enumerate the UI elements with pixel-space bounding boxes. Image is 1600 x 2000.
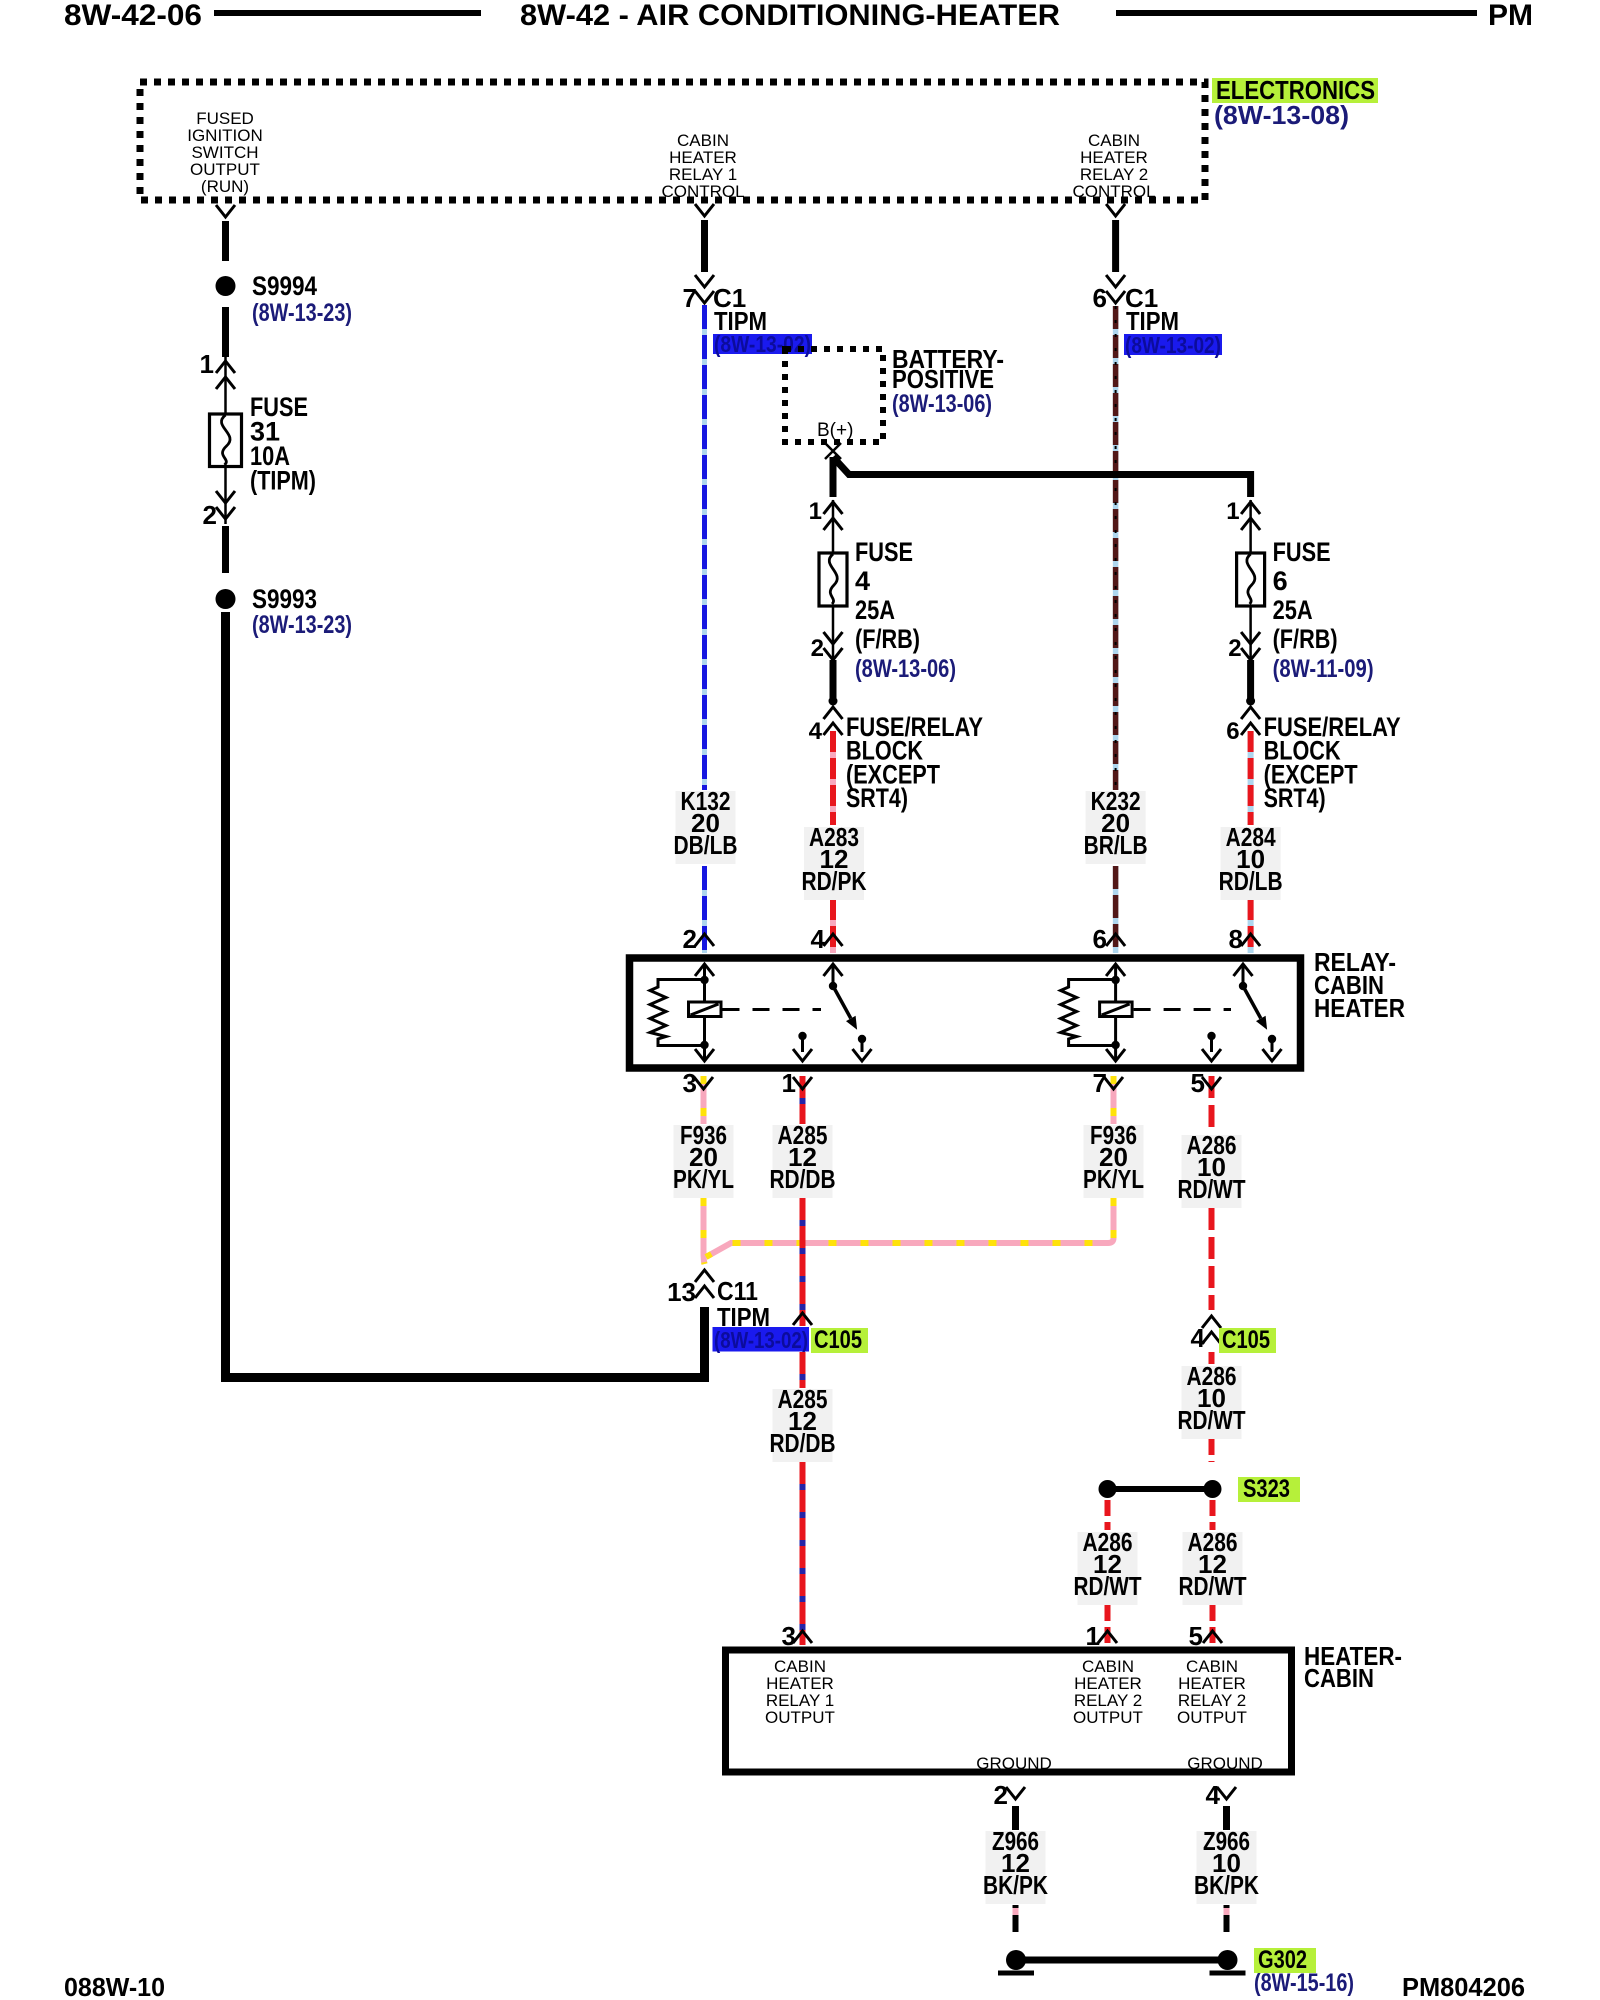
svg-text:RD/PK: RD/PK: [802, 866, 867, 896]
label A285 upper: [770, 1120, 836, 1198]
svg-text:(8W-13-23): (8W-13-23): [252, 299, 352, 327]
svg-text:S323: S323: [1243, 1475, 1290, 1503]
label G302: [1254, 1946, 1316, 1974]
label cabin heater relay 2 control: [1072, 131, 1155, 201]
splice S9993: [216, 589, 236, 609]
svg-text:BK/PK: BK/PK: [983, 1870, 1048, 1900]
footer right PM804206: [1402, 1972, 1525, 2000]
svg-text:(F/RB): (F/RB): [855, 624, 920, 654]
wire A286 10 RD/WT upper: [1209, 1076, 1215, 1133]
svg-text:B(+): B(+): [817, 420, 853, 441]
svg-text:2: 2: [203, 500, 217, 530]
svg-text:25A: 25A: [1273, 595, 1313, 625]
heater box pins bottom: [994, 1780, 1025, 1810]
svg-text:RD/WT: RD/WT: [1178, 1174, 1246, 1204]
header rule right: [1116, 10, 1477, 16]
label cabin heater relay 1 control: [661, 131, 744, 201]
long wire S9993 to C11 pin 13: [226, 612, 705, 1378]
label fused ignition switch output: [187, 109, 263, 196]
svg-text:RD/DB: RD/DB: [770, 1164, 836, 1194]
svg-text:2: 2: [811, 635, 824, 662]
svg-text:6: 6: [1273, 566, 1288, 596]
svg-text:(8W-13-02): (8W-13-02): [714, 1327, 808, 1353]
label A283: [802, 822, 867, 900]
fuse F31: [210, 357, 242, 524]
relay 1 internals: [650, 964, 872, 1061]
wire A286 S323 right leg: [1210, 1500, 1216, 1530]
fuse 6 value label: [1273, 537, 1374, 683]
svg-text:4: 4: [855, 566, 870, 596]
svg-text:(8W-13-06): (8W-13-06): [855, 655, 956, 683]
splice S323: [1099, 1480, 1222, 1498]
pin 1 fuse 31: [200, 349, 235, 389]
svg-text:2: 2: [683, 924, 697, 954]
relay box pins bottom: [683, 1068, 713, 1098]
label ELECTRONICS: [1212, 75, 1378, 105]
svg-text:(8W-13-23): (8W-13-23): [252, 611, 352, 639]
wire K132 20 DB/LB: [702, 305, 707, 953]
svg-text:RD/LB: RD/LB: [1219, 866, 1283, 896]
svg-text:2: 2: [1228, 635, 1241, 662]
svg-text:S9993: S9993: [252, 584, 317, 614]
header right PM: [1488, 0, 1533, 32]
label K132: [674, 786, 738, 864]
svg-text:25A: 25A: [855, 595, 895, 625]
svg-text:PK/YL: PK/YL: [1083, 1164, 1144, 1194]
ref 8W-13-08: [1214, 100, 1349, 130]
footer left 088W-10: [64, 1972, 165, 2000]
svg-text:(TIPM): (TIPM): [250, 466, 316, 496]
wire F936 pin3 PK/YL: [701, 1076, 707, 1124]
svg-text:(8W-13-02): (8W-13-02): [714, 331, 811, 357]
label K232: [1084, 786, 1148, 864]
svg-text:8: 8: [1229, 924, 1243, 954]
connector C105 left: [793, 1313, 868, 1354]
svg-text:FUSE: FUSE: [1273, 537, 1331, 567]
svg-text:(F/RB): (F/RB): [1273, 624, 1338, 654]
wire A286 below C105: [1209, 1352, 1215, 1364]
wire A286 to C105: [1209, 1208, 1215, 1310]
svg-text:7: 7: [1093, 1068, 1107, 1098]
wire fuse 6 to fuse/relay block: [1246, 660, 1255, 706]
label F936 left: [673, 1120, 734, 1198]
label S9994: [252, 271, 352, 327]
connector C1 right link box: [1124, 332, 1222, 358]
fuse F4: [819, 500, 847, 660]
connector C1 pin 6 labels: [1093, 283, 1179, 336]
label S323: [1238, 1475, 1300, 1503]
label S9993: [252, 584, 352, 639]
svg-text:BR/LB: BR/LB: [1084, 830, 1148, 860]
svg-text:8W-42 - AIR CONDITIONING-HEATE: 8W-42 - AIR CONDITIONING-HEATER: [520, 0, 1060, 32]
splice S9994: [216, 276, 236, 296]
svg-text:2: 2: [994, 1780, 1008, 1810]
svg-text:SRT4): SRT4): [846, 783, 908, 813]
label cabin heater relay 2 output a: [1073, 1657, 1143, 1727]
ref 8W-15-16: [1254, 1969, 1354, 1997]
pin 2 fuse 6: [1228, 632, 1260, 662]
svg-text:088W-10: 088W-10: [64, 1972, 165, 2000]
wire A286 right leg to heater: [1210, 1605, 1216, 1645]
svg-text:SRT4): SRT4): [1264, 783, 1326, 813]
label Z966 left: [983, 1826, 1048, 1904]
wire cabin heater relay control to C1 pin 6: [1106, 204, 1125, 303]
svg-text:C105: C105: [1222, 1326, 1270, 1354]
svg-text:13: 13: [667, 1277, 696, 1307]
connector C1 left link box: [713, 331, 812, 357]
wire A284 10 RD/LB: [1248, 731, 1254, 953]
label RELAY-CABIN HEATER: [1314, 947, 1405, 1023]
label A286 upper: [1178, 1130, 1246, 1208]
wire A285 12 RD/DB upper: [800, 1076, 806, 1124]
svg-text:DB/LB: DB/LB: [674, 830, 738, 860]
svg-text:CABIN: CABIN: [1304, 1663, 1374, 1693]
pin 1 fuse 4: [809, 498, 843, 530]
svg-text:OUTPUT: OUTPUT: [1177, 1708, 1247, 1727]
pin 13 C11 connector: [667, 1270, 770, 1332]
svg-text:4: 4: [1191, 1323, 1206, 1353]
wire F936 pin7 PK/YL: [1111, 1076, 1117, 1124]
svg-text:BK/PK: BK/PK: [1194, 1870, 1259, 1900]
label cabin heater relay 2 output b: [1177, 1657, 1247, 1727]
wire Z966 right top: [1223, 1806, 1230, 1830]
relay 2 internals: [1061, 964, 1282, 1061]
wire cabin heater relay control to C1 pin 7: [695, 204, 714, 303]
pin 1 fuse 6: [1226, 498, 1260, 530]
svg-text:OUTPUT: OUTPUT: [765, 1708, 835, 1727]
svg-text:FUSE: FUSE: [855, 537, 913, 567]
relay cabin heater box: [630, 958, 1301, 1068]
wire fuse31 to S9993: [222, 526, 229, 573]
pin 2 fuse 4: [811, 632, 843, 662]
wire from ignition output: [216, 205, 235, 261]
wire Z966 left top: [1012, 1806, 1019, 1830]
wire S9994 to fuse 31: [222, 307, 229, 357]
wire A286 left leg to heater: [1105, 1605, 1111, 1645]
svg-text:(8W-11-09): (8W-11-09): [1273, 655, 1374, 683]
label A286 mid: [1178, 1361, 1246, 1439]
label ground b: [1187, 1754, 1263, 1773]
svg-text:1: 1: [782, 1068, 796, 1098]
svg-text:8W-42-06: 8W-42-06: [64, 0, 202, 32]
svg-text:1: 1: [1226, 498, 1239, 525]
svg-text:RD/DB: RD/DB: [770, 1428, 836, 1458]
label A286 right leg: [1179, 1527, 1247, 1605]
wire A286 to S323: [1209, 1439, 1215, 1462]
label cabin heater relay 1 output: [765, 1657, 835, 1727]
svg-text:S9994: S9994: [252, 271, 317, 301]
svg-text:7: 7: [683, 283, 697, 313]
svg-text:RD/WT: RD/WT: [1179, 1571, 1247, 1601]
fuse F6: [1237, 500, 1265, 660]
svg-text:OUTPUT: OUTPUT: [1073, 1708, 1143, 1727]
connector C11 link box: [713, 1327, 810, 1353]
heater-cabin box: [726, 1650, 1292, 1772]
label Z966 right: [1194, 1826, 1259, 1904]
label FUSE/RELAY BLOCK: [1264, 712, 1401, 813]
svg-text:HEATER: HEATER: [1314, 993, 1405, 1023]
connector C105 right: [1191, 1316, 1276, 1354]
label BATTERY-POSITIVE: [892, 344, 1004, 418]
svg-text:1: 1: [809, 498, 822, 525]
label A285 lower: [770, 1384, 836, 1462]
fuse 4 value label: [855, 537, 956, 683]
battery-positive dotted box: [785, 349, 883, 442]
svg-text:1: 1: [200, 349, 214, 379]
svg-text:GROUND: GROUND: [976, 1754, 1052, 1773]
svg-text:RD/WT: RD/WT: [1178, 1405, 1246, 1435]
ground G302: [998, 1950, 1246, 1973]
svg-text:CONTROL: CONTROL: [661, 182, 744, 201]
wire A285 below C105: [800, 1352, 806, 1388]
svg-text:4: 4: [811, 924, 826, 954]
fuse 31 value label: [250, 392, 316, 496]
wire Z966 left lower BK/PK: [1013, 1905, 1019, 1932]
label HEATER-CABIN: [1304, 1641, 1402, 1693]
relay box pins top: [683, 924, 714, 954]
wire A285 to heater cabin: [800, 1462, 806, 1645]
svg-text:GROUND: GROUND: [1187, 1754, 1263, 1773]
label ground a: [976, 1754, 1052, 1773]
heater box pins top: [782, 1621, 812, 1651]
header rule left: [214, 10, 481, 16]
svg-text:6: 6: [1093, 924, 1107, 954]
svg-text:(8W-13-08): (8W-13-08): [1214, 100, 1349, 130]
svg-text:6: 6: [1093, 283, 1107, 313]
pin B(+): [817, 420, 853, 459]
svg-text:4: 4: [1206, 1780, 1221, 1810]
svg-text:PM804206: PM804206: [1402, 1972, 1525, 2000]
wire A285 to C105: [800, 1198, 806, 1326]
svg-text:CONTROL: CONTROL: [1072, 182, 1155, 201]
label A284: [1219, 822, 1283, 900]
svg-text:(8W-13-02): (8W-13-02): [1125, 332, 1221, 358]
pin 2 fuse 31: [203, 491, 235, 530]
pin 6 fuse/relay block: [1226, 707, 1260, 745]
wire B+ feed: [833, 457, 1251, 497]
svg-text:C105: C105: [814, 1326, 862, 1354]
pin 4 fuse/relay block: [809, 707, 843, 745]
label A286 left leg: [1074, 1527, 1142, 1605]
connector C1 pin 7 labels: [683, 283, 767, 336]
svg-text:(RUN): (RUN): [201, 177, 249, 196]
svg-text:5: 5: [1191, 1068, 1205, 1098]
wire Z966 right lower BK/PK: [1224, 1905, 1230, 1932]
label F936 right: [1083, 1120, 1144, 1198]
wire F936 junction to C11 pin 13: [704, 1198, 705, 1264]
svg-text:4: 4: [809, 718, 823, 745]
svg-text:3: 3: [683, 1068, 697, 1098]
wire fuse 4 to fuse/relay block: [829, 660, 838, 706]
svg-text:PK/YL: PK/YL: [673, 1164, 734, 1194]
label FUSE/RELAY BLOCK: [846, 712, 983, 813]
svg-text:(8W-13-06): (8W-13-06): [892, 390, 992, 418]
wire A286 S323 left leg: [1105, 1500, 1111, 1530]
header center title: [520, 0, 1060, 32]
svg-text:RD/WT: RD/WT: [1074, 1571, 1142, 1601]
svg-text:PM: PM: [1488, 0, 1533, 32]
header left title: [64, 0, 202, 32]
module TIPM dashed box: [140, 82, 1205, 200]
wire F936 horizontal run: [706, 1198, 1114, 1257]
svg-text:(8W-15-16): (8W-15-16): [1254, 1969, 1354, 1997]
wire K232 20 BR/LB: [1113, 306, 1119, 953]
wire A283 12 RD/PK: [830, 731, 836, 953]
svg-text:6: 6: [1226, 718, 1239, 745]
